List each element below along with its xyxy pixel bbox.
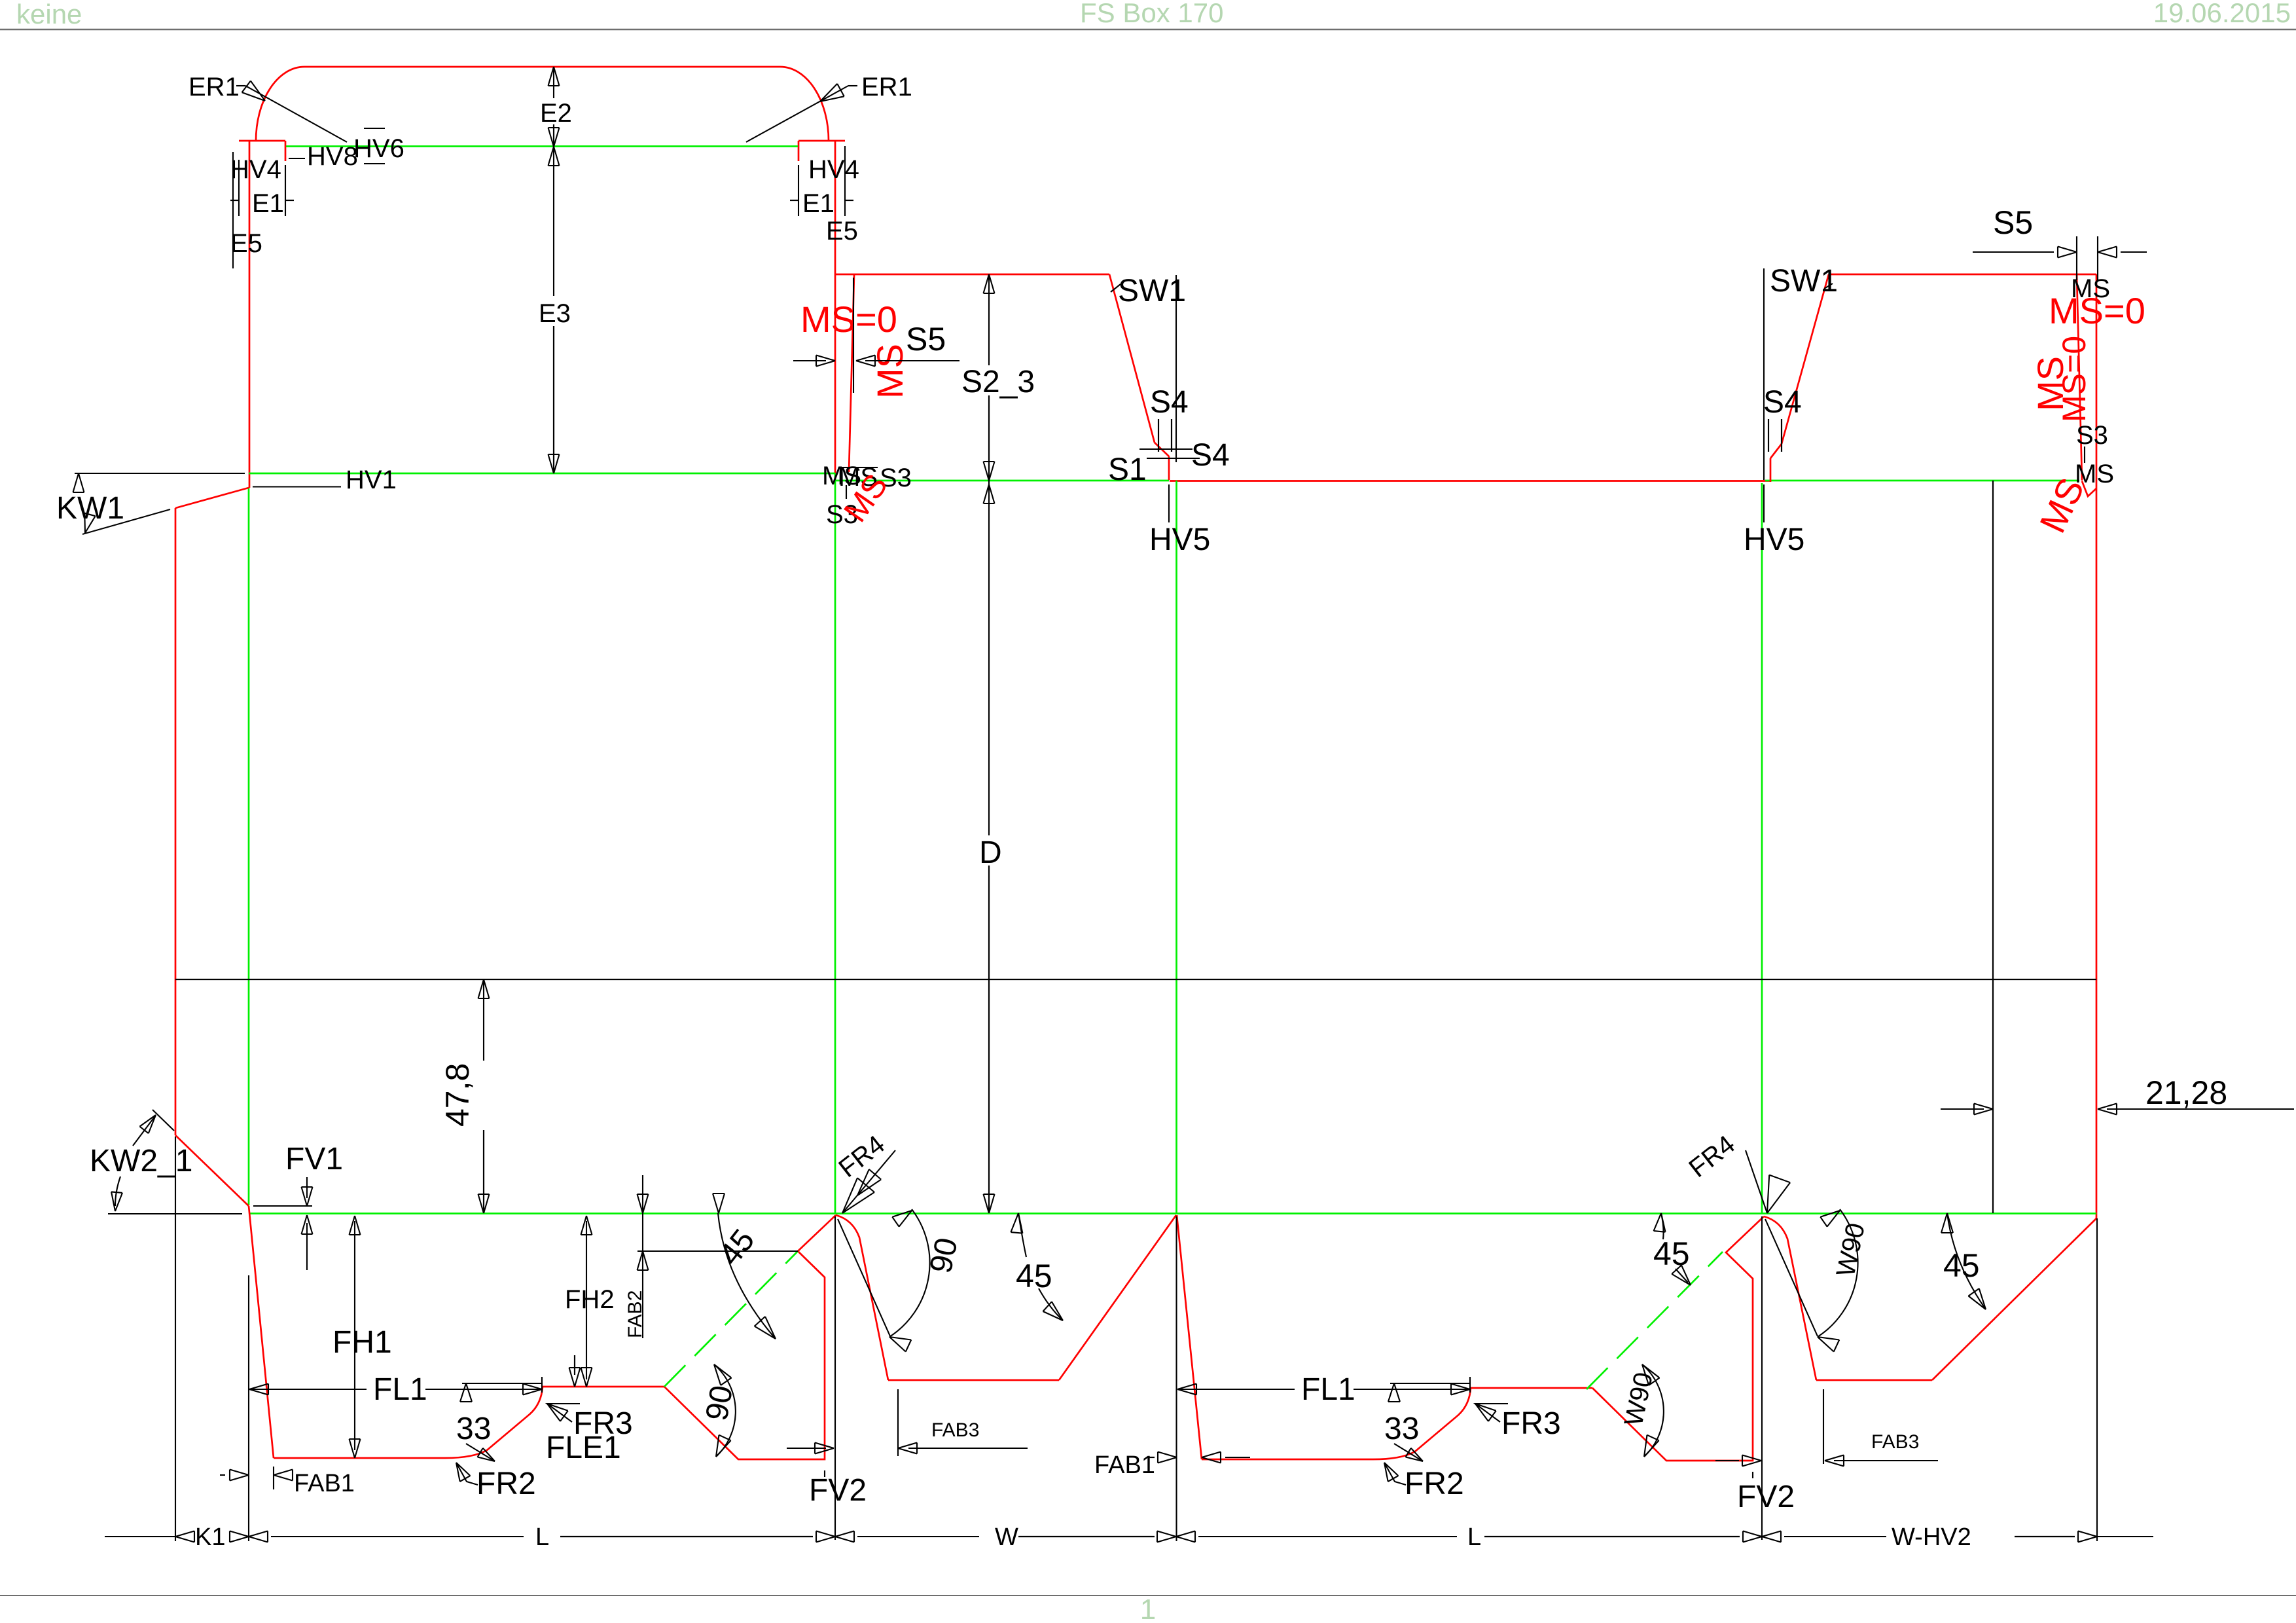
cut: flap1 left slant: [249, 1206, 274, 1458]
dim FAB3 right line a: [1715, 1460, 1739, 1461]
dim E3 line: [553, 147, 554, 296]
dim FAB3 left line a: [787, 1448, 826, 1449]
svg-text:S1: S1: [1108, 452, 1147, 487]
leader arrow ER1 right: [820, 84, 844, 101]
cut S4 jog right: [1770, 444, 1782, 458]
KW2_1 / K1 extension line: [175, 1137, 176, 1541]
footer separator line: [0, 1595, 2296, 1596]
FV2 right dashes: [1752, 1472, 1753, 1484]
svg-text:45: 45: [1943, 1247, 1980, 1284]
svg-text:FAB1: FAB1: [294, 1470, 355, 1497]
cut: top of right tuck flap: [1829, 274, 2096, 276]
HV8 tick: [289, 158, 305, 159]
dim FH2 line: [586, 1221, 587, 1379]
cut: W flap left edge with FR4 radius: [836, 1215, 888, 1380]
svg-text:FR2: FR2: [1405, 1467, 1464, 1501]
svg-text:KW1: KW1: [56, 491, 124, 526]
cut KW2_1: glue flap bottom slant: [175, 1135, 249, 1206]
flap3 ledge ext line: [1390, 1383, 1470, 1384]
HV6 overbar: [364, 128, 385, 129]
crease FV2: L|W panel fold: [834, 473, 836, 1213]
cut: flap3 left slant: [1177, 1215, 1202, 1459]
svg-text:K1: K1: [195, 1523, 225, 1551]
crease step at L|W boundary: [834, 473, 836, 481]
dim S5 left line a: [793, 360, 826, 361]
FV1 dim line lower: [306, 1223, 308, 1270]
dim D line: [988, 481, 990, 835]
angle arc 45 fold flap1: [718, 1213, 776, 1339]
cut: flap3 bottom FR2 33deg slope FR3: [1202, 1388, 1471, 1459]
crease: top of W panel S1 row: [836, 480, 1169, 482]
cut: notch top right: [798, 140, 845, 142]
svg-text:S2_3: S2_3: [961, 365, 1035, 399]
dim E2 arrow up: [548, 67, 560, 86]
svg-text:FR3: FR3: [1501, 1406, 1561, 1441]
leader FR4 right: [1746, 1150, 1818, 1336]
dim FAB3 left line b: [908, 1448, 1028, 1449]
cut MS: glue seam slant right: [2077, 274, 2082, 481]
cut SW1: tuck slope left: [1109, 274, 1155, 443]
FAB3 left tick: [897, 1389, 899, 1456]
svg-text:MS=0: MS=0: [800, 299, 897, 340]
S3 tick left: [840, 467, 878, 468]
KW1 slant ext line: [82, 509, 170, 534]
KW2_1 arrow up: [139, 1115, 156, 1133]
dim S5 right line a: [1973, 251, 2054, 253]
dim FAB3 right line b: [1834, 1460, 1938, 1461]
crease fold 45deg: flap1 diagonal dashed: [664, 1251, 798, 1387]
svg-text:19.06.2015: 19.06.2015: [2153, 0, 2291, 28]
leader arrow ER1 left: [242, 81, 265, 101]
leader ER1 right: [746, 86, 848, 142]
leader ER1 left: [245, 86, 347, 142]
dim FL1 flap3 line b: [1354, 1389, 1470, 1390]
cut: glue flap left edge: [175, 508, 177, 1135]
cut: right edge of blank: [2096, 274, 2098, 1218]
leader FR4 left: [838, 1150, 895, 1336]
crease fold 45deg: flap3 diagonal dashed: [1587, 1252, 1723, 1389]
FAB3 right tick: [1823, 1389, 1824, 1464]
E1 left tick a: [238, 160, 240, 216]
S3 tick right: [2084, 447, 2085, 463]
S5 right tick a: [2076, 236, 2077, 280]
crease: glue flap K1 fold: [248, 488, 250, 1205]
dim E2 arrow down: [548, 128, 560, 147]
dim FL1 flap1 line b: [425, 1389, 542, 1390]
ext: HV1 level to left: [75, 473, 245, 474]
svg-text:90: 90: [924, 1235, 965, 1276]
svg-text:D: D: [979, 835, 1002, 870]
dim line tail left: [105, 1536, 175, 1537]
KW2_1 leader upper: [133, 1117, 154, 1146]
FV2 dashes: [824, 1470, 825, 1482]
dim E3 arrow down: [548, 454, 560, 473]
crease HV1: lid fold: [249, 473, 835, 475]
cut SW1: right tuck slope: [1782, 274, 1829, 444]
cut: HV4 notch left vertical: [285, 141, 287, 161]
dim ext W-L: [1175, 1216, 1177, 1541]
angle arc 45 W1 slope lower: [1039, 1288, 1063, 1321]
svg-text:ER1: ER1: [188, 73, 240, 101]
cut: flap1 crash-lock hook: [664, 1215, 836, 1459]
leader 33 flap3: [1394, 1444, 1423, 1461]
cut: MS notch at right edge: [2082, 481, 2096, 496]
svg-text:45: 45: [1653, 1235, 1690, 1272]
svg-text:HV4: HV4: [808, 155, 859, 184]
svg-text:E5: E5: [230, 229, 262, 258]
header separator line: [0, 29, 2296, 31]
svg-text:S5: S5: [906, 321, 946, 357]
svg-text:FV1: FV1: [285, 1142, 343, 1176]
cut: rounded corner ER1 right: [780, 67, 829, 141]
SW1 tick: [1111, 284, 1121, 292]
angle arc 45 W2 slope: [1947, 1213, 1986, 1309]
angle 45 flap3 leader to dash: [1676, 1269, 1688, 1283]
leader FR3 flap3: [1475, 1404, 1508, 1422]
svg-text:E1: E1: [802, 189, 834, 218]
E1 right tick b: [844, 146, 846, 216]
cut: top edge of back panel: [1170, 480, 1770, 482]
svg-text:E3: E3: [539, 299, 571, 328]
cut: top of left tuck flap: [835, 274, 1109, 276]
HV4/E5 left tick line: [232, 152, 234, 268]
svg-text:W: W: [995, 1523, 1018, 1551]
svg-text:keine: keine: [16, 0, 82, 29]
S5 right tick b: [2097, 236, 2098, 280]
dim line tail right: [2097, 1536, 2153, 1537]
cut E5: right edge of lid panel: [834, 141, 836, 473]
svg-text:S4: S4: [1763, 385, 1802, 420]
leader 33 flap1: [466, 1444, 495, 1461]
cut: flap1 bottom FR2 radius 33deg slope FR3 radius: [274, 1387, 543, 1458]
svg-text:45: 45: [1016, 1258, 1052, 1294]
FAB2 arrow up to hook level: [637, 1251, 649, 1270]
crease: top of right panel row: [1765, 480, 2079, 482]
svg-text:HV1: HV1: [346, 465, 397, 494]
cut: right tuck edge vertical: [1770, 458, 1772, 482]
HV5 right tick: [1763, 484, 1765, 522]
FL1 tick at ledge: [541, 1377, 543, 1393]
svg-text:90: 90: [700, 1383, 740, 1423]
dim FL1 flap3 line a: [1177, 1389, 1295, 1390]
svg-text:FAB3: FAB3: [1871, 1431, 1919, 1453]
svg-text:W-HV2: W-HV2: [1892, 1523, 1971, 1551]
angle arc 45 fold flap3 upper: [1661, 1213, 1664, 1239]
svg-text:21,28: 21,28: [2145, 1074, 2227, 1111]
KW2_1 baseline ext: [108, 1213, 242, 1214]
dim FAB2 ext line: [642, 1175, 643, 1338]
E1 right tick a: [798, 165, 799, 216]
svg-text:HV6: HV6: [353, 134, 404, 163]
SW1 right tick: [1824, 283, 1833, 289]
svg-text:MS: MS: [869, 344, 910, 399]
svg-text:HV8: HV8: [307, 142, 358, 171]
svg-text:HV5: HV5: [1149, 522, 1210, 557]
svg-text:S4: S4: [1191, 438, 1230, 473]
dim FAB1 line: [220, 1474, 225, 1476]
svg-text:FAB3: FAB3: [931, 1419, 979, 1441]
reference line: lid depth: [175, 979, 2096, 980]
crease HV6: dust flap fold: [286, 145, 798, 147]
FAB1 tick: [273, 1467, 274, 1489]
ER1 right leader dash: [848, 85, 857, 86]
svg-text:ER1: ER1: [861, 73, 912, 101]
dim S5 left arrow right: [816, 356, 835, 367]
cut: flap1 ledge FLE1: [543, 1386, 664, 1388]
ER1 left leader dash: [236, 85, 245, 86]
vertical ref line right panel: [1992, 481, 1994, 1213]
dim S2_3 line: [988, 274, 990, 365]
svg-text:FH2: FH2: [565, 1285, 615, 1314]
dim E3 arrow up: [548, 147, 560, 166]
crease: bottom fold line of all panels: [249, 1213, 2096, 1214]
dim 21,28 line b: [2107, 1108, 2294, 1110]
svg-text:S3: S3: [2076, 421, 2108, 450]
svg-text:FR2: FR2: [476, 1467, 536, 1501]
svg-text:FV2: FV2: [1737, 1480, 1795, 1514]
KW1 arrow up: [73, 473, 84, 492]
dim line W: [857, 1536, 979, 1537]
svg-text:47,8: 47,8: [439, 1063, 476, 1127]
crease: W|L panel fold: [1175, 481, 1177, 1213]
SW1 right ext line: [1763, 268, 1765, 480]
angle arc 45 W1 slope upper: [1018, 1213, 1026, 1257]
leader FR3 flap1: [547, 1404, 580, 1422]
S5 left ext tick: [853, 278, 854, 393]
dim E2 line upper: [553, 67, 554, 98]
dim S5 right line b: [2121, 251, 2147, 253]
ext line FV2 left: [834, 1216, 836, 1540]
svg-text:KW2_1: KW2_1: [90, 1144, 192, 1178]
leader FR2 flap1: [456, 1463, 478, 1485]
dim FAB1 flap3 tail: [1225, 1457, 1250, 1458]
svg-text:1: 1: [1140, 1594, 1156, 1623]
dim line L2: [1198, 1536, 1457, 1537]
cut: W flap right slope: [1059, 1215, 1176, 1380]
ext line FV2 right: [1761, 1216, 1763, 1540]
dim FH1 line: [354, 1221, 355, 1450]
svg-text:MS=0: MS=0: [2049, 290, 2145, 331]
cut: flap3 crash-lock hook: [1592, 1216, 1764, 1461]
ext line S4 left: [1175, 275, 1177, 462]
dim FL1 flap1 line a: [249, 1389, 367, 1390]
FL1 flap3 tick: [1469, 1377, 1471, 1393]
dim 47,8 line: [483, 979, 484, 1061]
HV5 left tick: [1168, 484, 1170, 522]
cut: flap3 ledge: [1471, 1387, 1592, 1389]
svg-text:FH1: FH1: [332, 1325, 392, 1360]
dim line L: [271, 1536, 524, 1537]
ledge level ext line: [462, 1383, 542, 1384]
cut: top edge of lid dust flap: [304, 66, 780, 68]
angle arc 90 W1 flap: [889, 1209, 930, 1337]
svg-text:HV4: HV4: [230, 155, 281, 184]
cut S4 jog: [1155, 443, 1169, 456]
angle arc W90 flap3: [1642, 1364, 1664, 1457]
svg-text:E5: E5: [826, 217, 858, 246]
cut E5: left edge of lid panel: [249, 141, 251, 488]
dim S5 left line b: [865, 360, 960, 361]
svg-text:S5: S5: [1993, 204, 2033, 241]
dim ext right: [2096, 1218, 2098, 1541]
S4 tick b: [1147, 458, 1200, 459]
svg-text:FAB1: FAB1: [1094, 1451, 1155, 1479]
crease: L|W-HV2 panel fold: [1761, 483, 1763, 1213]
arrow up at ledge ext: [460, 1383, 472, 1402]
svg-text:L: L: [1467, 1523, 1481, 1551]
svg-text:HV5: HV5: [1744, 522, 1804, 557]
angle arc 90 flap1: [714, 1364, 736, 1457]
KW2_1 angle arc lower: [115, 1176, 120, 1206]
S4 tick a: [1139, 448, 1193, 450]
dim line W-HV2: [1784, 1536, 1886, 1537]
cut: HV4 notch right vertical: [798, 141, 800, 161]
cut KW1: glue flap top slant: [175, 488, 249, 508]
KW1 arrow down: [84, 513, 95, 533]
HV6 underbar: [364, 163, 385, 164]
svg-text:E2: E2: [540, 99, 572, 128]
E1 left tick b: [285, 165, 286, 216]
svg-text:33: 33: [1384, 1412, 1419, 1446]
svg-text:FL1: FL1: [373, 1372, 427, 1407]
svg-text:FL1: FL1: [1301, 1372, 1355, 1407]
cut: W flap bottom: [888, 1379, 1059, 1381]
cut: HV8 notch top left: [239, 140, 285, 142]
svg-text:FV2: FV2: [809, 1473, 867, 1508]
svg-text:L: L: [535, 1523, 549, 1551]
cut: right W flap bottom: [1816, 1379, 1932, 1381]
svg-text:33: 33: [456, 1412, 491, 1446]
angle arc W90 W2 flap: [1818, 1209, 1858, 1337]
cut: S1 edge vertical: [1168, 456, 1170, 480]
cut: rounded corner ER1 left: [256, 67, 304, 141]
svg-text:MS=0: MS=0: [2056, 336, 2092, 422]
KW2_1 arc arrow down: [111, 1192, 122, 1211]
KW2_1 slant ext: [152, 1110, 174, 1131]
cut: right W flap left edge FR4: [1764, 1216, 1816, 1380]
svg-text:S4: S4: [1150, 385, 1189, 420]
svg-text:FAB2: FAB2: [624, 1290, 646, 1338]
second arrow at ledge: [569, 1368, 581, 1387]
svg-text:E1: E1: [252, 189, 284, 218]
svg-text:FS Box 170: FS Box 170: [1080, 0, 1223, 28]
dim S5 left arrow left: [856, 356, 875, 367]
cut: right W flap slope: [1932, 1218, 2096, 1380]
svg-text:FLE1: FLE1: [546, 1431, 621, 1465]
cut MS: glue seam slant left: [849, 274, 854, 472]
hook apex level ext line: [637, 1250, 798, 1252]
FV1 reference tick: [253, 1205, 312, 1207]
MS tick left: [846, 485, 847, 499]
svg-text:SW1: SW1: [1770, 264, 1838, 299]
FAB2 arrow down to crease: [637, 1194, 649, 1213]
HV1 leader: [253, 486, 341, 487]
dim ext K1-L: [248, 1275, 249, 1541]
leader FR2 flap3: [1384, 1463, 1406, 1485]
dim 21,28 line a: [1941, 1108, 1984, 1110]
FV1 dim line upper: [306, 1177, 308, 1198]
